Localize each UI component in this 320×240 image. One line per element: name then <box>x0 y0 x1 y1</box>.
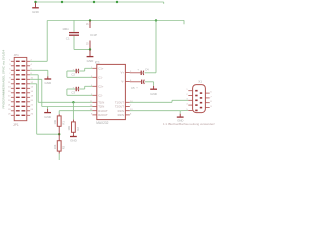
wire top rail end drop <box>163 2 165 4</box>
svg-text:9: 9 <box>210 106 212 108</box>
svg-text:11: 11 <box>8 82 11 84</box>
wire JP1 pin8 to T1IN <box>30 75 92 103</box>
svg-text:+: + <box>137 68 139 71</box>
svg-text:10K: 10K <box>67 126 71 131</box>
svg-text:25: 25 <box>8 114 11 116</box>
svg-text:14: 14 <box>31 87 34 89</box>
svg-text:X1: X1 <box>198 80 202 84</box>
wire JP1 pin10 to T2IN <box>30 79 92 106</box>
svg-text:7: 7 <box>210 96 212 98</box>
svg-text:8: 8 <box>130 113 132 115</box>
ground GND top-left <box>32 3 40 15</box>
node junction R2 top <box>72 101 74 103</box>
svg-text:17: 17 <box>8 96 11 98</box>
svg-text:10K: 10K <box>53 144 57 149</box>
node junction on top rail <box>61 1 63 3</box>
ground GND JP1 pin6 <box>44 76 52 85</box>
connector JP1 pin header 2x13 <box>11 57 30 120</box>
IC1 name label <box>95 61 100 65</box>
wire R1 bottom <box>58 126 60 134</box>
ground GND near X1 <box>177 111 184 123</box>
node junction C4 branch <box>155 19 157 21</box>
node junction on top rail <box>116 1 118 3</box>
svg-text:4: 4 <box>186 104 188 106</box>
svg-text:R2: R2 <box>76 127 80 131</box>
svg-text:R2OUT: R2OUT <box>98 113 108 117</box>
capacitor C5 <box>130 80 145 91</box>
svg-text:C5: C5 <box>131 86 135 90</box>
svg-text:2: 2 <box>186 94 188 96</box>
svg-text:22: 22 <box>31 105 34 107</box>
node junction R1/R3 <box>58 133 60 135</box>
svg-text:JP1: JP1 <box>14 53 20 57</box>
wire second rail right drop <box>183 20 185 24</box>
wire R1 to R1OUT <box>59 111 92 115</box>
svg-text:PROGRAMMIERKABEL SPI/C via SV1: PROGRAMMIERKABEL SPI/C via SV1/B4 <box>1 50 5 109</box>
svg-text:C1-: C1- <box>98 75 103 79</box>
op-amp U1 IC1 MAX232 body <box>90 64 133 119</box>
JP1 value label <box>13 123 19 127</box>
svg-text:C1: C1 <box>66 36 70 40</box>
node junction on top rail <box>93 1 95 3</box>
svg-text:C2+: C2+ <box>98 84 104 88</box>
svg-text:18: 18 <box>31 96 34 98</box>
ground GND under R2 <box>70 132 78 142</box>
ground GND near C5 <box>150 86 158 96</box>
svg-text:GND: GND <box>150 92 158 96</box>
resistor R3 <box>53 141 66 151</box>
wire JP1 pin2 to VCC rail <box>30 21 47 62</box>
svg-text:GND: GND <box>44 81 52 85</box>
wire C1 top <box>73 20 75 32</box>
op-amp IC1P power gate MAX232 <box>86 21 97 50</box>
IC1 value label <box>96 121 108 125</box>
wire R3 bottom off-page <box>58 151 60 160</box>
svg-text:V+: V+ <box>121 71 125 75</box>
svg-text:C1+: C1+ <box>98 66 104 70</box>
svg-text:JP1: JP1 <box>13 123 19 127</box>
svg-text:V-: V- <box>121 80 124 84</box>
wire C1 bottom to GND node <box>74 36 90 50</box>
svg-text:4: 4 <box>31 64 33 66</box>
wire R2 top <box>72 102 74 122</box>
svg-text:24: 24 <box>31 109 34 111</box>
svg-text:6: 6 <box>210 92 212 94</box>
node junction IC1P VCC <box>89 19 91 21</box>
capacitor C4 <box>130 67 149 75</box>
svg-text:1: 1 <box>186 89 188 91</box>
svg-text:15: 15 <box>86 43 89 46</box>
ground GND under IC1P <box>87 50 95 64</box>
svg-text:21: 21 <box>8 105 11 107</box>
svg-text:GND: GND <box>44 115 52 119</box>
svg-text:MAX232: MAX232 <box>96 121 108 125</box>
wire T1OUT to X1 pin3 <box>130 100 189 102</box>
svg-text:13: 13 <box>8 87 11 89</box>
svg-text:15: 15 <box>8 91 11 93</box>
svg-text:7: 7 <box>130 105 132 107</box>
node junction on top rail <box>34 1 36 3</box>
wire C4 to VCC rail <box>145 20 156 73</box>
wire R1 top <box>58 114 60 116</box>
net label rotated left edge <box>1 50 5 109</box>
svg-text:19: 19 <box>8 100 11 102</box>
svg-text:23: 23 <box>8 109 11 111</box>
svg-text:8: 8 <box>210 101 212 103</box>
wire C5 to GND <box>145 82 154 86</box>
svg-text:C4: C4 <box>145 67 149 71</box>
svg-text:16: 16 <box>86 23 89 26</box>
wire R3 top <box>58 134 60 141</box>
ground GND mid-left <box>44 107 52 119</box>
capacitor C3 <box>67 86 93 95</box>
svg-text:16: 16 <box>31 91 34 93</box>
svg-text:1:1 /Buchse/Buchse-Leitung ver: 1:1 /Buchse/Buchse-Leitung verwenden! <box>163 122 215 126</box>
wire VCC second rail <box>47 20 184 22</box>
svg-text:+: + <box>136 87 138 90</box>
svg-text:100n: 100n <box>62 27 69 31</box>
wire JP1 pin12 down-left <box>30 84 59 134</box>
connector X1 DB9 <box>186 85 212 113</box>
svg-text:R1: R1 <box>62 121 66 125</box>
svg-text:20: 20 <box>31 100 34 102</box>
wire R1IN to X1 pin5 <box>130 110 189 112</box>
capacitor C1 100n <box>62 27 79 40</box>
svg-text:R3: R3 <box>62 145 66 149</box>
resistor R2 <box>67 122 80 132</box>
JP1 pin numbers <box>8 60 34 116</box>
svg-text:R2IN: R2IN <box>118 113 124 117</box>
svg-text:26: 26 <box>31 114 34 116</box>
svg-text:10K: 10K <box>53 120 57 125</box>
svg-text:IC1: IC1 <box>95 61 100 65</box>
capacitor C2 <box>67 68 93 77</box>
svg-text:C2-: C2- <box>98 93 103 97</box>
wire VCC top rail <box>36 1 164 3</box>
resistor R1 <box>53 116 66 126</box>
svg-text:GND: GND <box>32 10 40 14</box>
wire JP1 pin6 to GND <box>30 70 48 76</box>
svg-text:GND: GND <box>87 59 95 63</box>
svg-text:C2: C2 <box>71 72 75 76</box>
svg-text:C3: C3 <box>71 90 75 94</box>
node junction C1/IC1P GND <box>89 48 91 50</box>
JP1 name label <box>14 53 20 57</box>
X1 name label <box>198 80 202 84</box>
svg-text:IC1P: IC1P <box>90 33 97 37</box>
note text 1:1 cable <box>163 122 215 126</box>
svg-text:GND: GND <box>70 139 78 143</box>
